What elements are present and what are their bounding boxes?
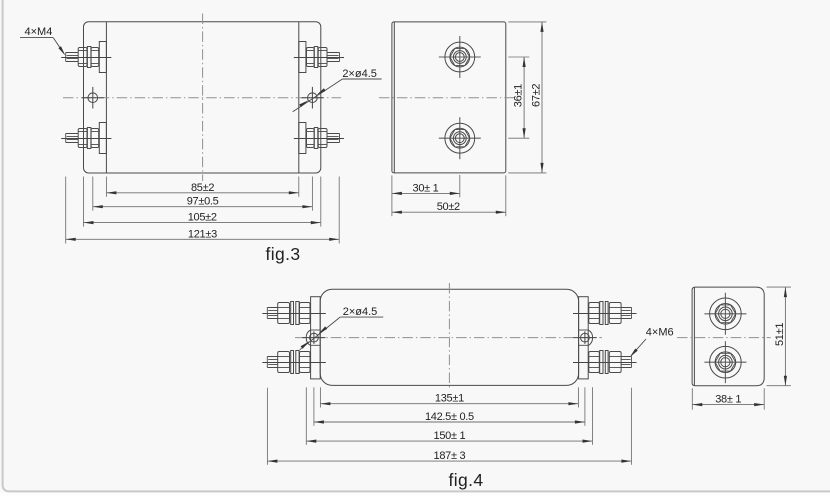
fig.4 side: extension lines for 51 dim — [767, 286, 791, 288]
fig.4 front: left end plate — [311, 297, 321, 379]
svg-text:105±2: 105±2 — [188, 212, 217, 224]
svg-text:85±2: 85±2 — [191, 182, 214, 194]
svg-text:50±2: 50±2 — [437, 201, 460, 213]
fig.3 mounting hole right (Ø4.5) — [302, 87, 324, 109]
label 2xO4.5 (fig.3) with leader through hole — [293, 68, 382, 112]
terminal bolt M6 fig.4 top-right — [573, 302, 637, 325]
fig.4 side view: case outline — [692, 287, 764, 386]
fig.4 front: horizontal centerline — [295, 337, 602, 339]
fig.3 side: extension lines for 67 dim — [508, 21, 546, 23]
label 4xM4 with leader — [20, 26, 65, 56]
svg-text:135±1: 135±1 — [435, 393, 464, 405]
svg-text:150± 1: 150± 1 — [434, 430, 466, 442]
fig.4 extension lines below front view — [267, 387, 631, 465]
dimension 67±2 — [530, 22, 543, 173]
fig.3 front: body left edge — [105, 22, 107, 173]
fig.3 side view: horizontal centerline — [379, 97, 516, 99]
terminal (end view) fig.3 upper — [439, 36, 481, 78]
terminal bolt M4 fig.3 bottom-left — [61, 123, 111, 154]
dimension 97±0.5 — [93, 196, 313, 209]
fig.3 side: extension lines below — [391, 175, 393, 216]
fig.3 extension lines below front view — [66, 177, 340, 244]
fig.3 side view: case outline — [392, 22, 506, 173]
terminal (end view) fig.4 upper — [704, 293, 746, 335]
label 4xM6 with leader — [630, 326, 674, 357]
fig.4 front: vertical centerline — [448, 283, 450, 391]
svg-text:187± 3: 187± 3 — [434, 450, 466, 462]
svg-text:fig.4: fig.4 — [448, 470, 483, 490]
svg-text:4×M4: 4×M4 — [24, 26, 52, 38]
terminal (end view) fig.4 lower — [704, 341, 746, 383]
svg-text:2×ø4.5: 2×ø4.5 — [342, 68, 377, 80]
dimension 38±1 — [692, 394, 764, 407]
terminal bolt M6 fig.4 bottom-left — [262, 351, 326, 374]
fig.4 front view: case body — [320, 289, 578, 385]
terminal bolt M4 fig.3 bottom-right — [294, 123, 344, 154]
terminal bolt M6 fig.4 bottom-right — [573, 351, 637, 374]
label 2xO4.5 (fig.4) with leader through hole — [300, 306, 384, 350]
dimension 150±1 — [306, 430, 592, 443]
fig.4 mounting ear left — [306, 330, 320, 346]
svg-text:30± 1: 30± 1 — [413, 182, 439, 194]
svg-text:38± 1: 38± 1 — [715, 394, 741, 406]
fig.4 side view: horizontal centerline — [677, 337, 771, 339]
svg-text:2×ø4.5: 2×ø4.5 — [343, 306, 378, 318]
fig.4 side: extension lines below — [691, 388, 693, 410]
fig.3 front: horizontal centerline — [63, 97, 341, 99]
dimension 85±2 — [106, 182, 298, 195]
fig.4 mounting hole left (Ø4.5) — [302, 331, 325, 344]
svg-text:fig.3: fig.3 — [265, 244, 300, 264]
dimension 50±2 — [392, 201, 506, 214]
svg-text:36±1: 36±1 — [513, 84, 525, 107]
fig.3 front view: mounting flange plate — [84, 22, 321, 173]
terminal bolt M4 fig.3 top-left — [61, 42, 111, 73]
svg-text:67±2: 67±2 — [530, 84, 542, 107]
fig.4 front: right end plate — [579, 297, 589, 379]
dimension 36±1 — [513, 57, 526, 138]
dimension 51±1 — [774, 287, 787, 386]
terminal (end view) fig.3 lower — [439, 117, 481, 159]
svg-text:142.5± 0.5: 142.5± 0.5 — [425, 411, 474, 423]
dimension 142.5±0.5 — [314, 411, 585, 424]
dimension 187±3 — [267, 450, 631, 463]
terminal bolt M6 fig.4 top-left — [262, 302, 326, 325]
svg-text:121±3: 121±3 — [188, 228, 217, 240]
dimension 30±1 — [392, 182, 460, 195]
fig.3 front: vertical centerline — [202, 14, 204, 182]
terminal bolt M4 fig.3 top-right — [294, 42, 344, 73]
dimension 121±3 — [66, 228, 340, 241]
fig.4 mounting hole right (Ø4.5) — [573, 331, 596, 344]
fig.3 mounting hole left (Ø4.5) — [82, 87, 104, 109]
svg-text:97±0.5: 97±0.5 — [187, 196, 219, 208]
dimension 105±2 — [84, 212, 321, 225]
fig.4 side view: flange edge (double line) — [693, 287, 695, 386]
fig.4 mounting ear right — [579, 330, 593, 346]
fig.3 front: body right edge — [298, 22, 300, 173]
dimension 135±1 — [320, 393, 578, 406]
svg-text:4×M6: 4×M6 — [646, 326, 674, 338]
svg-text:51±1: 51±1 — [774, 323, 786, 346]
fig.3 side: extension lines for 36 dim — [508, 56, 529, 58]
fig.3 side view: flange edge (double line) — [393, 22, 395, 173]
